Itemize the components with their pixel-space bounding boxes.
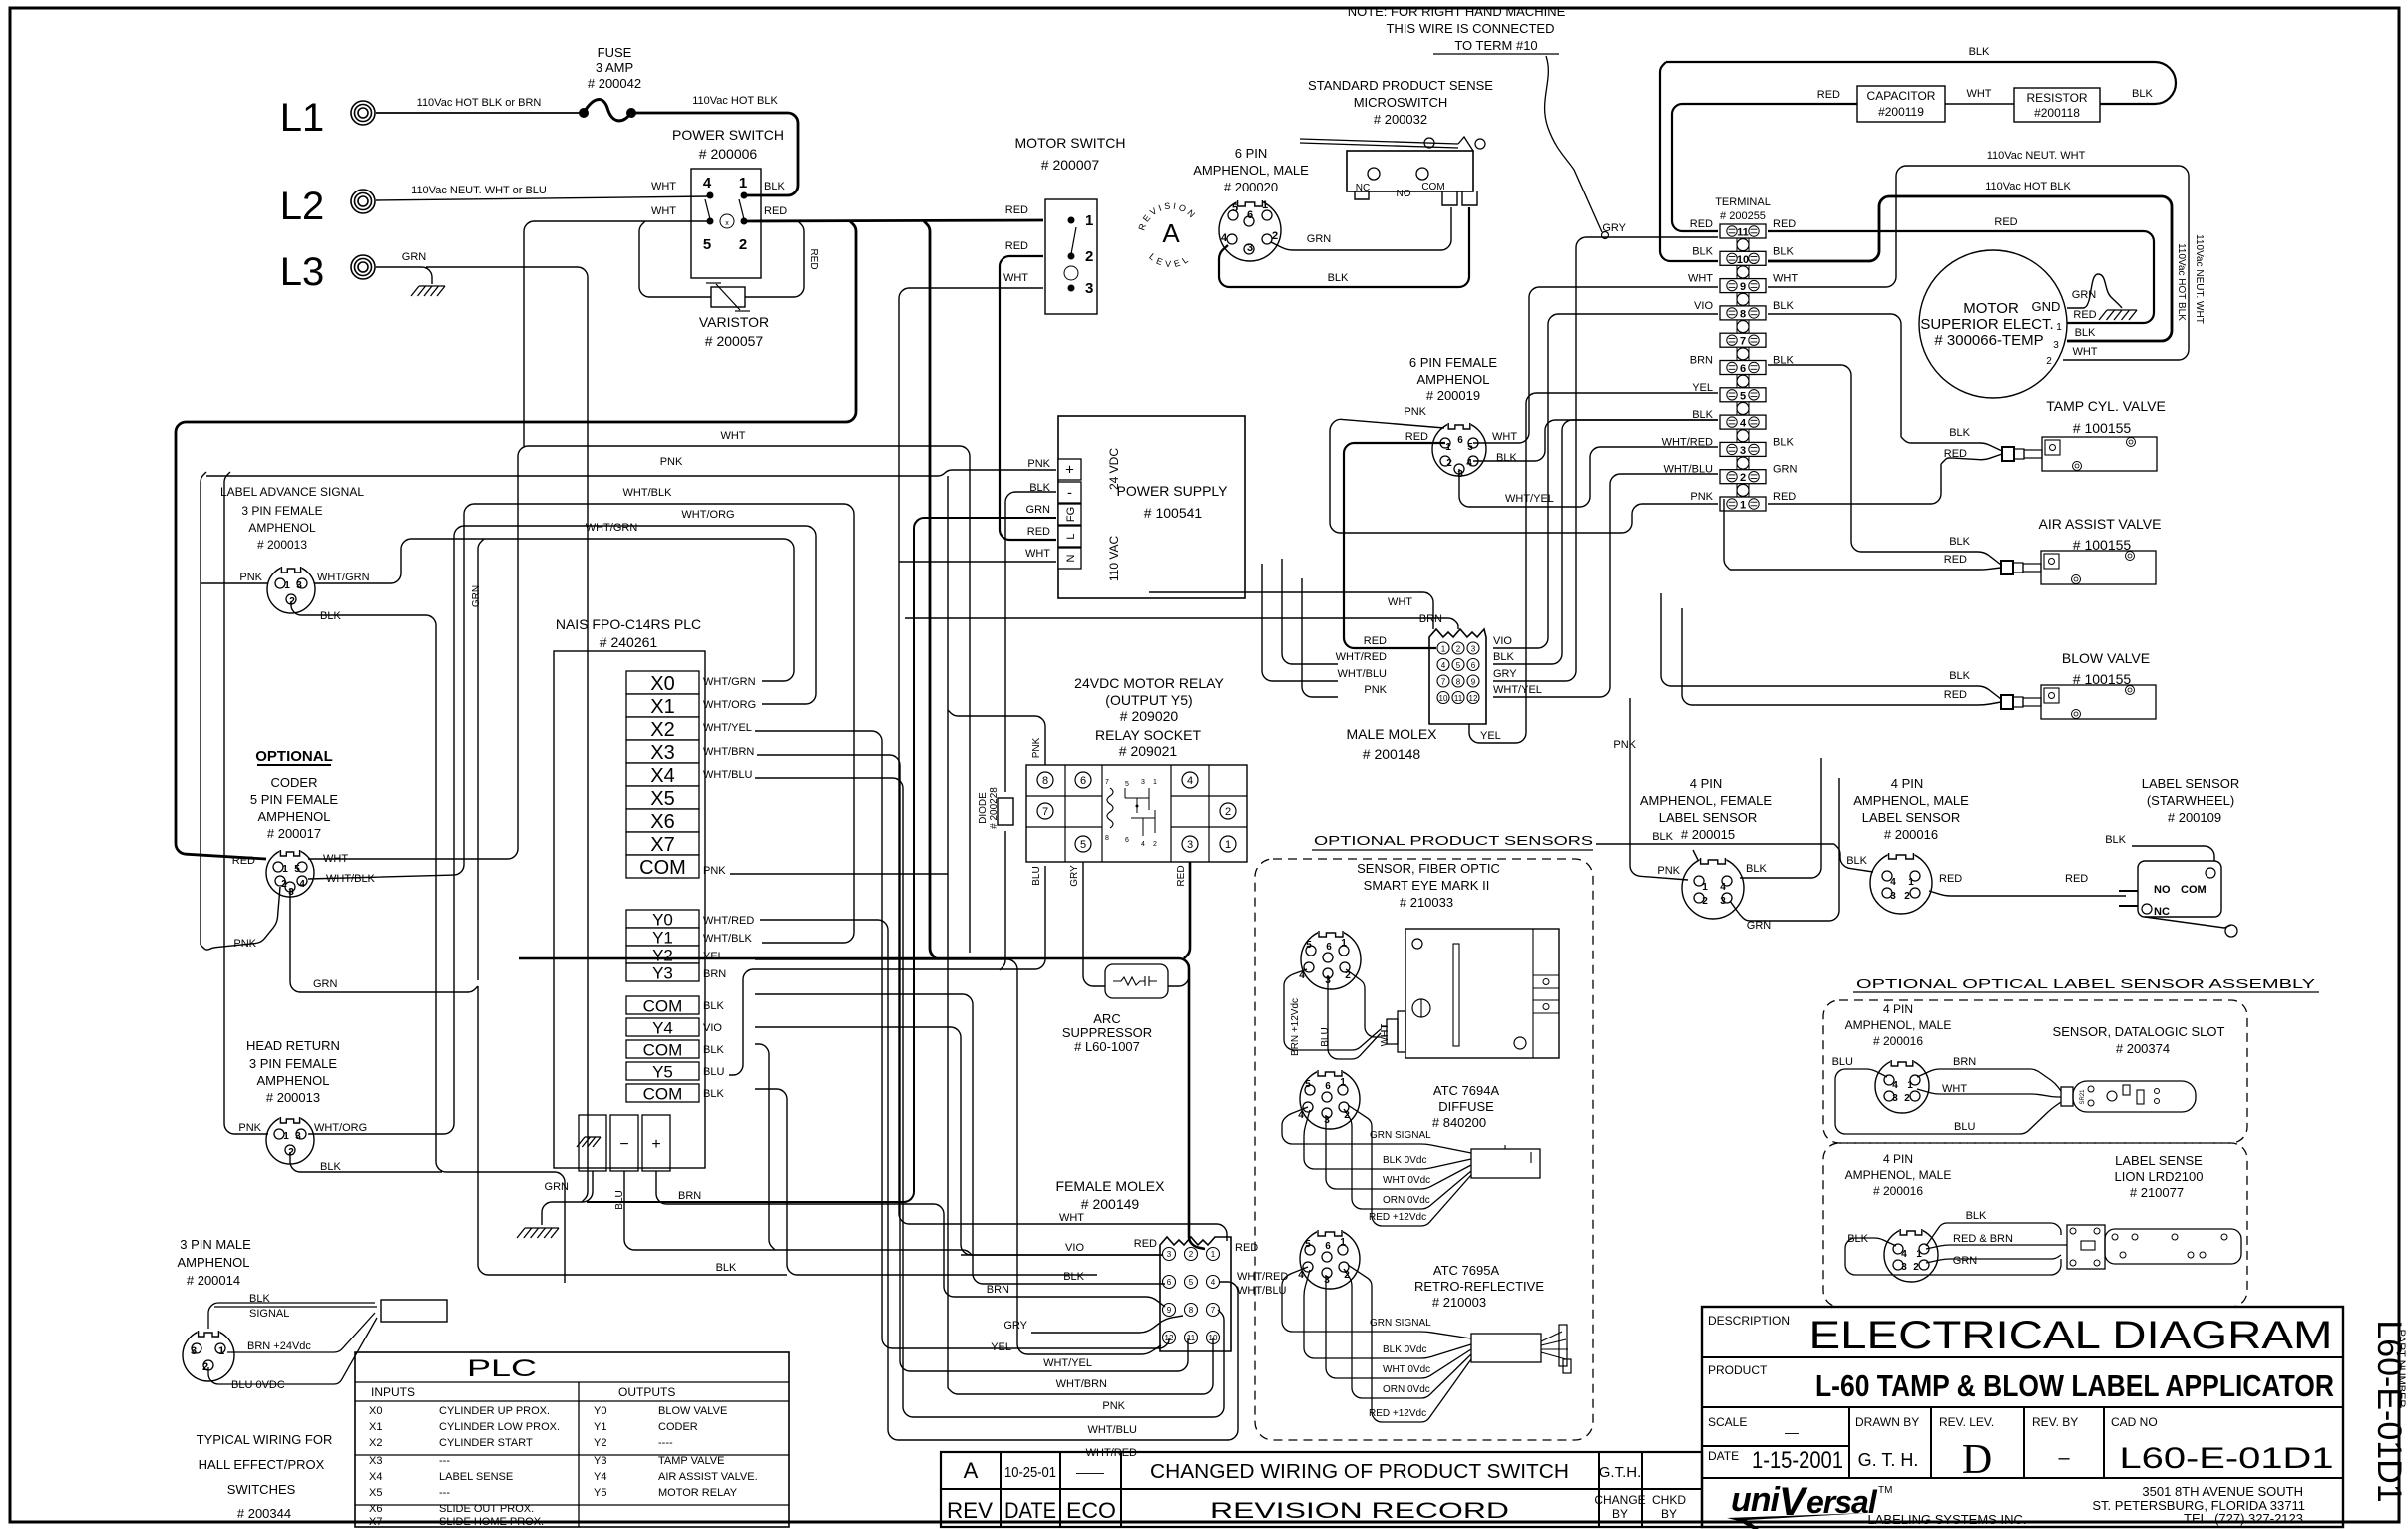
terminal 6 (1720, 361, 1766, 375)
svg-text:# 200057: # 200057 (705, 333, 764, 349)
svg-text:BLK: BLK (1063, 1271, 1084, 1283)
svg-text:12: 12 (1165, 1334, 1174, 1342)
svg-text:WHT/BLU: WHT/BLU (1088, 1424, 1138, 1436)
wire PNK PLC COM to PNK bus (730, 873, 948, 875)
svg-text:STANDARD PRODUCT SENSE: STANDARD PRODUCT SENSE (1308, 78, 1493, 93)
svg-text:Y1: Y1 (594, 1421, 606, 1433)
PLC cell Y4 output (626, 1018, 699, 1036)
connector 6 pin ATC 7695A (1300, 1229, 1360, 1289)
svg-text:PNK: PNK (238, 1122, 261, 1134)
wire varistor right lead loop to RED (745, 221, 804, 297)
wire BRN male molex top (905, 618, 1458, 629)
svg-text:NC: NC (1356, 183, 1370, 193)
svg-text:WHT/ORG: WHT/ORG (681, 509, 734, 521)
svg-text:BLK: BLK (764, 181, 785, 192)
svg-text:REV: REV (947, 1498, 993, 1523)
svg-text:BRN: BRN (678, 1190, 701, 1202)
svg-text:RED +12Vdc: RED +12Vdc (1369, 1408, 1426, 1419)
svg-text:BLK: BLK (2075, 327, 2096, 339)
svg-text:110Vac HOT BLK or BRN: 110Vac HOT BLK or BRN (417, 97, 542, 109)
svg-text:# 209021: # 209021 (1119, 743, 1178, 759)
svg-text:WHT/RED: WHT/RED (1336, 651, 1387, 663)
terminal strip links (1737, 236, 1749, 253)
svg-text:RELAY SOCKET: RELAY SOCKET (1095, 727, 1202, 743)
svg-text:3: 3 (1740, 445, 1746, 457)
wire WHT/GRN label advance to PLC X0 (314, 539, 794, 681)
terminal 10 (1720, 251, 1766, 265)
svg-text:BLOW VALVE: BLOW VALVE (658, 1405, 727, 1417)
svg-text:X3: X3 (650, 742, 674, 764)
svg-text:NO: NO (2154, 884, 2171, 896)
svg-text:BLU: BLU (703, 1066, 724, 1078)
svg-text:BLU: BLU (1031, 866, 1042, 885)
svg-text:# 840200: # 840200 (1432, 1115, 1486, 1130)
svg-text:AMPHENOL: AMPHENOL (258, 809, 331, 824)
svg-text:COM: COM (643, 1085, 683, 1104)
svg-text:WHT: WHT (1688, 273, 1713, 285)
svg-text:8: 8 (1189, 1306, 1194, 1315)
svg-text:# L60-1007: # L60-1007 (1074, 1039, 1140, 1054)
svg-text:Y2: Y2 (594, 1437, 606, 1449)
PLC cell Y2 output (626, 946, 699, 963)
svg-text:2: 2 (1702, 896, 1708, 907)
svg-text:—: — (1785, 1424, 1799, 1440)
svg-text:RED: RED (1944, 448, 1967, 460)
wire RED terminal 1 to tamp valve (1768, 464, 1941, 504)
svg-text:6: 6 (1125, 837, 1129, 844)
wire PNK 4pin female (1630, 698, 1688, 880)
PLC cell X5 (626, 786, 699, 809)
wires ATC 7695A to retro sensor (1282, 1267, 1471, 1338)
terminal 3 (1720, 442, 1766, 456)
svg-text:# 200016: # 200016 (1884, 827, 1938, 842)
svg-text:6: 6 (1167, 1278, 1172, 1287)
svg-text:3: 3 (1167, 1250, 1172, 1259)
wire RED power supply L to motor switch pin 2 (1000, 256, 1056, 540)
wire GRY female molex pin 8 (1031, 1316, 1183, 1333)
capacitor C1 #200119 (1857, 86, 1945, 122)
wire VIO male molex to terminal 8 (1493, 314, 1718, 648)
svg-text:BRN +12Vdc: BRN +12Vdc (1290, 998, 1301, 1056)
svg-text:THIS WIRE IS CONNECTED: THIS WIRE IS CONNECTED (1386, 21, 1554, 36)
svg-text:LABELING SYSTEMS INC.: LABELING SYSTEMS INC. (1868, 1512, 2027, 1527)
revision record table (941, 1452, 1702, 1527)
svg-text:6: 6 (1740, 363, 1746, 375)
svg-text:1: 1 (1702, 882, 1708, 893)
wire PNK trunk to power supply + (206, 470, 1056, 476)
svg-text:PNK: PNK (1364, 684, 1387, 696)
wire BLU optical 1 loop (1835, 1069, 2061, 1134)
svg-text:1: 1 (1907, 1080, 1913, 1091)
terminal 4 (1720, 415, 1766, 429)
svg-text:1: 1 (1211, 1250, 1216, 1259)
wire WHT/YEL PLC X2 to molex 12 (755, 731, 1169, 1348)
svg-text:CYLINDER UP PROX.: CYLINDER UP PROX. (439, 1405, 550, 1417)
wire BLK terminal 6 to air assist valve (1768, 365, 2001, 565)
svg-text:AMPHENOL, MALE: AMPHENOL, MALE (1853, 793, 1969, 808)
svg-text:----: ---- (658, 1437, 673, 1449)
svg-text:TAMP CYL. VALVE: TAMP CYL. VALVE (2046, 398, 2166, 414)
wire WHT/BLK coder to PLC Y1 (308, 504, 854, 943)
wire BLK to blow valve (1661, 593, 2001, 699)
svg-text:X4: X4 (369, 1471, 382, 1483)
wire WHT bus motor switch pin 3 down to female molex pin 2 (899, 288, 1227, 1241)
svg-text:# 200344: # 200344 (237, 1506, 291, 1521)
svg-text:LION LRD2100: LION LRD2100 (2115, 1169, 2204, 1184)
svg-text:9: 9 (1471, 678, 1476, 687)
svg-text:GRN SIGNAL: GRN SIGNAL (1370, 1318, 1431, 1329)
svg-text:2: 2 (1225, 806, 1231, 818)
svg-text:SCALE: SCALE (1708, 1415, 1747, 1429)
svg-text:REV. LEV.: REV. LEV. (1939, 1415, 1994, 1429)
svg-text:110Vac NEUT. WHT: 110Vac NEUT. WHT (2194, 234, 2205, 324)
svg-text:RED +12Vdc: RED +12Vdc (1369, 1212, 1426, 1223)
wire WHT optical 1 (1917, 1089, 2061, 1097)
svg-text:HEAD RETURN: HEAD RETURN (246, 1038, 340, 1053)
wire BLK PLC COM to molex 6 (755, 994, 1165, 1284)
wire WHT terminal 9 to motor pin 2, 110Vac NEUT WHT (1768, 166, 2189, 360)
svg-text:WHT: WHT (1773, 273, 1798, 285)
svg-text:OPTIONAL: OPTIONAL (255, 748, 333, 765)
svg-text:3: 3 (1892, 1093, 1898, 1104)
svg-text:4: 4 (1901, 1249, 1907, 1260)
svg-text:RED: RED (1005, 204, 1028, 216)
svg-text:DATE: DATE (1004, 1498, 1056, 1523)
PLC cell COM (626, 855, 699, 878)
arc suppressor #L60-1007 (1105, 964, 1168, 998)
wire RED to air assist valve (1730, 568, 2001, 570)
svg-text:PNK: PNK (703, 865, 726, 877)
svg-text:# 200255: # 200255 (1720, 210, 1766, 222)
terminal 8 (1720, 306, 1766, 320)
svg-text:WHT/BLK: WHT/BLK (703, 933, 753, 945)
svg-text:WHT: WHT (2072, 346, 2097, 358)
svg-text:WHT/YEL: WHT/YEL (1493, 684, 1542, 696)
svg-text:1: 1 (1340, 1237, 1346, 1248)
svg-text:COM: COM (1421, 182, 1444, 192)
wire VIO PLC Y4 to molex 3 (755, 1027, 1163, 1255)
svg-text:TYPICAL WIRING FOR: TYPICAL WIRING FOR (197, 1432, 333, 1447)
svg-text:# 210003: # 210003 (1432, 1295, 1486, 1310)
svg-text:11: 11 (1737, 227, 1749, 239)
terminal 2 (1720, 470, 1766, 484)
svg-text:BLK: BLK (1966, 1210, 1987, 1222)
svg-text:3: 3 (1890, 891, 1896, 902)
svg-text:3 AMP: 3 AMP (596, 60, 633, 75)
PLC cell COM output (626, 996, 699, 1014)
svg-text:4: 4 (1740, 418, 1747, 430)
svg-text:AMPHENOL: AMPHENOL (1417, 372, 1490, 387)
svg-text:3 PIN MALE: 3 PIN MALE (180, 1237, 251, 1252)
svg-text:4: 4 (1890, 877, 1896, 888)
svg-text:110Vac NEUT. WHT or BLU: 110Vac NEUT. WHT or BLU (411, 185, 547, 196)
diffuse sensor body #840200 (1471, 1149, 1540, 1178)
svg-text:BLU: BLU (1954, 1121, 1975, 1133)
svg-text:GRN: GRN (471, 585, 482, 607)
revision level A marker (1136, 200, 1201, 269)
svg-text:# 200016: # 200016 (1873, 1184, 1923, 1198)
svg-text:Y3: Y3 (594, 1455, 606, 1467)
svg-text:(STARWHEEL): (STARWHEEL) (2147, 793, 2234, 808)
wire RED from power switch pin 2 to motor switch pin 1 (746, 220, 1043, 221)
svg-text:RETRO-REFLECTIVE: RETRO-REFLECTIVE (1414, 1279, 1544, 1294)
svg-text:# 200374: # 200374 (2116, 1041, 2170, 1056)
svg-text:MICROSWITCH: MICROSWITCH (1354, 95, 1448, 110)
svg-text:VIO: VIO (703, 1022, 722, 1034)
wire L2 neutral to power switch pin 4 (376, 196, 708, 200)
wire BLK resistor loop to terminal 10 (1666, 62, 2176, 104)
svg-text:DIODE: DIODE (978, 792, 989, 824)
svg-text:2: 2 (288, 1147, 294, 1158)
wire WHT/YEL male molex to terminal 2 (1493, 474, 1718, 697)
svg-text:1: 1 (1225, 839, 1231, 851)
wire BLK terminal 10 to motor pin 3, 110Vac HOT BLK (1768, 196, 2172, 341)
wire PNK label advance (201, 582, 268, 584)
wire L1 hot to fuse (376, 112, 584, 114)
svg-text:---: --- (439, 1455, 450, 1467)
svg-text:NO: NO (1397, 189, 1411, 199)
wire PNK molex pin 10 (948, 1338, 1213, 1394)
svg-text:BLK: BLK (1949, 427, 1970, 439)
svg-text:BY: BY (1612, 1507, 1628, 1521)
wire YEL PLC Y2 to molex 12 (755, 959, 1161, 1354)
svg-text:# 200020: # 200020 (1224, 180, 1278, 194)
svg-text:BLK: BLK (1493, 651, 1514, 663)
svg-text:FUSE: FUSE (598, 45, 632, 60)
svg-text:WHT: WHT (1025, 548, 1050, 560)
svg-text:CHANGED WIRING OF PRODUCT SWIT: CHANGED WIRING OF PRODUCT SWITCH (1150, 1461, 1569, 1483)
svg-text:VIO: VIO (1065, 1242, 1084, 1254)
svg-text:CYLINDER LOW PROX.: CYLINDER LOW PROX. (439, 1421, 560, 1433)
terminal 5 (1720, 388, 1766, 402)
starwheel microswitch (2138, 861, 2221, 917)
svg-text:BRN: BRN (987, 1284, 1009, 1296)
wire thick RED vertical from power switch to relay trunk (924, 221, 936, 958)
svg-text:TAMP VALVE: TAMP VALVE (658, 1455, 724, 1467)
svg-text:WHT: WHT (1942, 1083, 1967, 1095)
svg-text:GRN: GRN (402, 251, 427, 263)
svg-text:AMPHENOL, MALE: AMPHENOL, MALE (1845, 1018, 1952, 1032)
svg-text:COM: COM (2181, 884, 2207, 896)
svg-text:BLK: BLK (703, 1000, 724, 1012)
svg-text:BLK: BLK (2105, 834, 2126, 846)
svg-text:-: - (1067, 485, 1072, 502)
svg-text:−: − (619, 1136, 628, 1153)
terminal 9 (1720, 279, 1766, 293)
svg-text:X5: X5 (369, 1487, 382, 1499)
svg-text:# 200016: # 200016 (1873, 1034, 1923, 1048)
svg-text:ARC: ARC (1093, 1011, 1120, 1026)
svg-text:AMPHENOL: AMPHENOL (257, 1073, 330, 1088)
svg-text:COM: COM (643, 1041, 683, 1060)
svg-text:# 240261: # 240261 (600, 634, 658, 650)
svg-text:2: 2 (1085, 248, 1093, 265)
svg-text:AMPHENOL, FEMALE: AMPHENOL, FEMALE (1640, 793, 1773, 808)
svg-text:BRN: BRN (1419, 613, 1442, 625)
svg-text:# 100155: # 100155 (2073, 420, 2132, 436)
svg-text:AMPHENOL: AMPHENOL (248, 521, 316, 535)
svg-text:PNK: PNK (1031, 737, 1042, 758)
svg-text:3 PIN FEMALE: 3 PIN FEMALE (249, 1056, 337, 1071)
svg-text:Y2: Y2 (652, 947, 673, 965)
svg-text:WHT: WHT (1492, 431, 1517, 443)
svg-text:PNK: PNK (239, 572, 262, 583)
svg-text:RED: RED (1773, 491, 1796, 503)
svg-text:BRN: BRN (703, 968, 726, 980)
wire BLK to tamp valve (1901, 437, 2002, 451)
svg-text:WHT/BRN: WHT/BRN (703, 746, 754, 758)
svg-text:REV. BY: REV. BY (2032, 1415, 2078, 1429)
svg-text:RED: RED (1364, 635, 1387, 647)
svg-text:WHT: WHT (651, 181, 676, 192)
svg-text:7: 7 (1211, 1306, 1216, 1315)
svg-text:1: 1 (1085, 212, 1093, 229)
svg-text:BLK: BLK (1773, 436, 1794, 448)
svg-text:10: 10 (1439, 694, 1448, 703)
svg-text:DIFFUSE: DIFFUSE (1438, 1099, 1494, 1114)
svg-text:2: 2 (1189, 1250, 1194, 1259)
svg-text:3: 3 (2053, 340, 2059, 351)
svg-text:BLK 0Vdc: BLK 0Vdc (1383, 1155, 1426, 1166)
svg-text:REVISION RECORD: REVISION RECORD (1210, 1498, 1509, 1523)
svg-text:G. T. H.: G. T. H. (1858, 1450, 1919, 1470)
svg-text:RED: RED (808, 248, 819, 269)
svg-text:5: 5 (1740, 390, 1746, 402)
wire ground L3 GRN (376, 267, 432, 284)
svg-text:BLU: BLU (614, 1190, 625, 1209)
wire GRN motor gnd (2067, 274, 2122, 308)
svg-text:Y4: Y4 (652, 1019, 673, 1038)
svg-text:GRY: GRY (1602, 222, 1626, 234)
svg-text:5: 5 (1456, 661, 1461, 670)
svg-text:1: 1 (2056, 322, 2062, 333)
svg-text:NC: NC (2154, 906, 2170, 918)
svg-text:VARISTOR: VARISTOR (699, 314, 769, 330)
svg-text:TERMINAL: TERMINAL (1715, 196, 1771, 208)
svg-text:5: 5 (1080, 839, 1086, 851)
svg-text:ORN 0Vdc: ORN 0Vdc (1383, 1384, 1430, 1395)
svg-text:PNK: PNK (1657, 865, 1680, 877)
svg-text:WHT: WHT (720, 430, 745, 442)
PLC cell X4 (626, 763, 699, 786)
wire PNK 6pin female (1330, 419, 1718, 533)
fiber optic sensor body #210033 (1405, 929, 1559, 1058)
svg-text:2: 2 (1153, 841, 1157, 848)
svg-text:# 200042: # 200042 (588, 76, 641, 91)
svg-text:4: 4 (1441, 661, 1446, 670)
svg-text:VIO: VIO (1694, 300, 1713, 312)
svg-text:LABEL SENSE: LABEL SENSE (439, 1471, 513, 1483)
svg-text:RED: RED (2065, 873, 2088, 885)
svg-text:ECO: ECO (1066, 1498, 1116, 1523)
svg-text:AIR ASSIST VALVE: AIR ASSIST VALVE (2039, 516, 2162, 532)
svg-text:4: 4 (1298, 1270, 1304, 1281)
wire RED 6pin female to male molex pin 1 (1344, 443, 1445, 648)
svg-text:3: 3 (1247, 242, 1253, 254)
svg-text:ATC 7694A: ATC 7694A (1433, 1083, 1500, 1098)
svg-text:8: 8 (1105, 835, 1109, 842)
svg-text:Y3: Y3 (652, 964, 673, 983)
PLC cell X1 (626, 694, 699, 717)
wire WHT/RED male molex left (1282, 559, 1338, 664)
svg-text:PRODUCT: PRODUCT (1708, 1363, 1768, 1377)
svg-text:110Vac NEUT. WHT: 110Vac NEUT. WHT (1987, 150, 2086, 162)
svg-text:5: 5 (1306, 940, 1312, 951)
svg-text:# 210033: # 210033 (1400, 895, 1453, 910)
svg-text:SENSOR, DATALOGIC SLOT: SENSOR, DATALOGIC SLOT (2053, 1024, 2225, 1039)
svg-text:6: 6 (1457, 435, 1463, 446)
svg-text:GRN: GRN (1773, 464, 1798, 476)
wire BRN +24Vdc (227, 1313, 375, 1352)
svg-text:9: 9 (1167, 1306, 1172, 1315)
svg-text:LABEL SENSOR: LABEL SENSOR (1862, 810, 1961, 825)
svg-text:4: 4 (1298, 1110, 1304, 1121)
svg-text:2: 2 (1272, 230, 1278, 242)
svg-text:# 200014: # 200014 (187, 1273, 240, 1288)
wire BLU 0VDC (208, 1318, 377, 1384)
svg-text:GRN: GRN (313, 978, 338, 990)
svg-text:#200118: #200118 (2034, 106, 2080, 120)
wire squiggle from note to GRY terminal wire (1545, 56, 1602, 232)
svg-text:6: 6 (1080, 775, 1086, 787)
PLC cell Y1 output (626, 928, 699, 946)
svg-text:POWER SWITCH: POWER SWITCH (672, 127, 784, 143)
svg-text:2: 2 (1446, 458, 1452, 469)
svg-text:BLK: BLK (320, 1161, 341, 1173)
wire WHT trunk coder pin 5 (308, 446, 970, 953)
wire YEL male molex to terminal 5 (1469, 393, 1718, 743)
svg-text:WHT/GRN: WHT/GRN (586, 522, 638, 534)
wire RED relay pin 3 to female molex 1 (1184, 862, 1190, 958)
svg-text:Y5: Y5 (594, 1487, 606, 1499)
svg-text:BLK: BLK (1773, 300, 1794, 312)
svg-text:3: 3 (288, 887, 294, 898)
svg-text:SLIDE OUT PROX.: SLIDE OUT PROX. (439, 1503, 534, 1515)
svg-text:X0: X0 (369, 1405, 382, 1417)
wire RED 4pin male to starwheel switch (1929, 891, 2126, 896)
svg-text:3: 3 (1324, 1115, 1330, 1126)
svg-text:HALL EFFECT/PROX: HALL EFFECT/PROX (199, 1457, 325, 1472)
wire WHT/YEL 6pin female to terminal 3 (1459, 447, 1718, 507)
svg-text:LABEL SENSOR: LABEL SENSOR (1659, 810, 1758, 825)
svg-text:2: 2 (739, 236, 747, 253)
svg-text:RED: RED (1134, 1238, 1157, 1250)
svg-text:VIO: VIO (1493, 635, 1512, 647)
PLC cell Y0 output (626, 910, 699, 928)
svg-text:LABEL SENSE: LABEL SENSE (2115, 1153, 2203, 1168)
wire WHT/ORG head return to PLC X1 (308, 526, 816, 1134)
svg-text:NAIS FPO-C14RS PLC: NAIS FPO-C14RS PLC (556, 616, 701, 632)
wire WHT/BRN PLC X3 to molex 11 (757, 755, 1188, 1371)
svg-text:3: 3 (1720, 896, 1726, 907)
svg-text:G.T.H.: G.T.H. (1599, 1464, 1642, 1481)
svg-text:6: 6 (1325, 1081, 1331, 1092)
retro-reflective sensor body #210003 (1471, 1334, 1541, 1362)
svg-text:3 PIN FEMALE: 3 PIN FEMALE (241, 504, 322, 518)
svg-text:X6: X6 (369, 1503, 382, 1515)
svg-text:Y0: Y0 (594, 1405, 606, 1417)
svg-text:1: 1 (1262, 199, 1268, 211)
svg-text:CAD NO: CAD NO (2111, 1415, 2158, 1429)
svg-text:WHT/YEL: WHT/YEL (703, 722, 752, 734)
svg-text:#200119: #200119 (1878, 105, 1924, 119)
wire GRN vertical bus (478, 539, 484, 980)
svg-text:L60-E-01D1: L60-E-01D1 (2120, 1442, 2334, 1475)
svg-text:WHT: WHT (323, 853, 348, 865)
svg-text:6: 6 (1247, 209, 1253, 221)
svg-text:PART NUMBER: PART NUMBER (2395, 1330, 2407, 1408)
svg-text:BLK: BLK (1969, 46, 1990, 58)
